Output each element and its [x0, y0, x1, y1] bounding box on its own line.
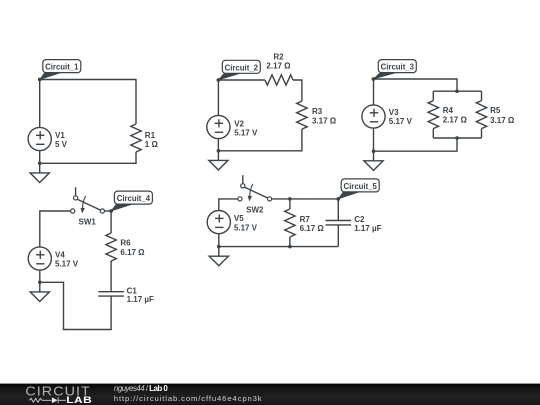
svg-text:Circuit_5: Circuit_5 [344, 182, 378, 191]
svg-text:R1: R1 [145, 131, 156, 140]
svg-text:V2: V2 [234, 119, 244, 128]
svg-text:5.17 V: 5.17 V [234, 128, 258, 137]
svg-text:V4: V4 [55, 251, 65, 260]
svg-text:V1: V1 [55, 131, 65, 140]
svg-text:R6: R6 [120, 239, 131, 248]
svg-text:R4: R4 [443, 106, 454, 115]
svg-text:5.17 V: 5.17 V [55, 259, 79, 268]
svg-text:3.17 Ω: 3.17 Ω [490, 116, 515, 125]
svg-text:C2: C2 [354, 215, 365, 224]
svg-text:Circuit_4: Circuit_4 [117, 194, 151, 203]
svg-text:1 Ω: 1 Ω [145, 140, 159, 149]
svg-text:R3: R3 [312, 107, 323, 116]
svg-text:R7: R7 [300, 215, 311, 224]
svg-text:5 V: 5 V [55, 140, 68, 149]
svg-text:LAB: LAB [66, 395, 92, 405]
svg-text:R5: R5 [490, 106, 501, 115]
svg-text:1.17 µF: 1.17 µF [127, 295, 154, 304]
svg-text:2.17 Ω: 2.17 Ω [443, 116, 468, 125]
svg-text:SW1: SW1 [79, 218, 97, 227]
svg-text:nguyes44 / Lab 0: nguyes44 / Lab 0 [114, 384, 169, 393]
svg-text:Circuit_1: Circuit_1 [45, 63, 79, 72]
svg-text:V5: V5 [234, 214, 244, 223]
svg-text:5.17 V: 5.17 V [234, 223, 258, 232]
svg-text:R2: R2 [273, 52, 284, 61]
svg-text:http://circuitlab.com/cffu46e4: http://circuitlab.com/cffu46e4cpn3k [114, 394, 263, 403]
svg-text:Circuit_3: Circuit_3 [381, 63, 415, 72]
svg-text:Circuit_2: Circuit_2 [225, 63, 259, 72]
svg-text:SW2: SW2 [246, 206, 264, 215]
svg-text:1.17 µF: 1.17 µF [354, 224, 381, 233]
svg-text:6.17 Ω: 6.17 Ω [120, 248, 145, 257]
svg-text:2.17 Ω: 2.17 Ω [266, 62, 291, 71]
svg-text:5.17 V: 5.17 V [389, 117, 413, 126]
svg-text:3.17 Ω: 3.17 Ω [312, 116, 337, 125]
svg-text:V3: V3 [389, 108, 399, 117]
svg-text:6.17 Ω: 6.17 Ω [300, 224, 325, 233]
